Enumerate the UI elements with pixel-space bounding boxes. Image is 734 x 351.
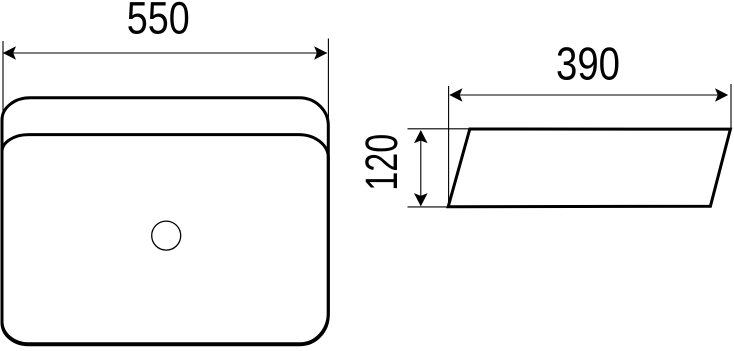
- svg-text:390: 390: [556, 38, 620, 90]
- svg-text:550: 550: [127, 0, 190, 43]
- svg-text:120: 120: [356, 134, 407, 191]
